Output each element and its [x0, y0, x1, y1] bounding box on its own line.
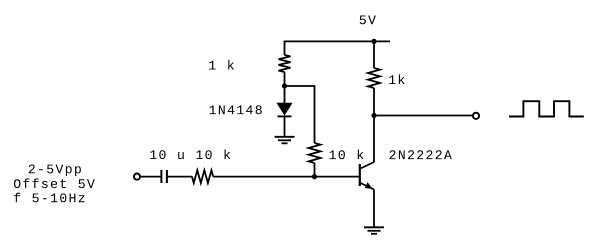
resistor R1 1 k (vertical, left) [279, 55, 291, 72]
node A junction dot [282, 83, 287, 88]
node B junction dot (base node) [312, 174, 317, 179]
wire R4 bottom to node C [373, 88, 375, 116]
transistor Q1 2N2222A (base bar, collector, emitter with arrow) [360, 162, 374, 190]
output square-wave waveform symbol [509, 101, 584, 116]
input terminal (open circle) [134, 174, 140, 180]
value label 10 k [330, 150, 364, 160]
wire node A to diode anode [284, 86, 286, 104]
input signal description line 3 [14, 193, 85, 203]
wire 5V top rail [285, 40, 391, 42]
value label 1N4148 [210, 105, 262, 114]
resistor R2 10 k (horizontal, series) [192, 170, 213, 183]
input signal description line 1 [29, 165, 81, 177]
wire rail down to R4 top [373, 41, 375, 68]
part label 2N2222A [390, 150, 452, 159]
wire diode cathode to ground [284, 116, 286, 136]
ground symbol (below diode) [275, 137, 295, 144]
wire collector up to node C [373, 116, 375, 163]
wire R2 to transistor base through node B [213, 176, 359, 178]
node D junction dot on 5V rail [371, 39, 376, 44]
value labels 10 u / 10 k (above input network) [150, 149, 230, 159]
label 5V supply [360, 16, 376, 25]
wire node A right and down to R3 [285, 86, 315, 143]
wire node C to output terminal [374, 115, 473, 117]
wire capacitor to R2 [168, 176, 192, 178]
wire input terminal to capacitor C1 [140, 176, 160, 178]
wire R3 bottom to node B [314, 163, 316, 177]
wire rail corner down to R1 top [284, 41, 286, 56]
value label 1k [389, 74, 405, 84]
diode D1 1N4148 (triangle + cathode bar) [278, 103, 292, 116]
value label 1 k [209, 60, 234, 70]
output terminal (open circle) [473, 113, 479, 119]
ground symbol (emitter) [364, 227, 384, 234]
node C junction dot (collector/output node) [371, 113, 376, 118]
input signal description line 2 [14, 178, 95, 188]
capacitor C1 10 u (two plates) [161, 170, 167, 183]
resistor R4 1k (vertical, collector load) [368, 68, 380, 88]
resistor R3 10 k (vertical, base pulldown) [309, 143, 321, 163]
wire emitter down to ground [373, 190, 375, 228]
wire R1 bottom to node A [284, 72, 286, 86]
